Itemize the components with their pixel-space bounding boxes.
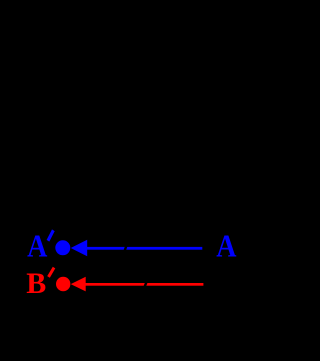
svg-text:B: B <box>26 267 46 300</box>
svg-text:A: A <box>27 229 48 264</box>
svg-text:A: A <box>216 229 237 264</box>
